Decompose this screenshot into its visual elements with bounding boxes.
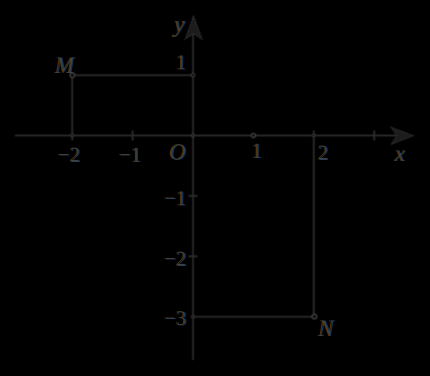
label 1 on y-axis xyxy=(175,50,187,74)
label x xyxy=(393,141,406,166)
point N marker xyxy=(312,314,317,319)
svg-text:−1: −1 xyxy=(120,143,142,167)
point x=1 marker xyxy=(251,133,255,137)
label y xyxy=(172,12,186,38)
svg-text:O: O xyxy=(170,140,187,165)
tick x=3 xyxy=(373,131,375,141)
svg-text:−2: −2 xyxy=(165,247,187,271)
svg-text:−3: −3 xyxy=(165,307,187,331)
svg-text:−2: −2 xyxy=(59,143,81,167)
label N xyxy=(317,316,336,341)
label 2 on x-axis xyxy=(317,140,329,164)
x-axis arrowhead xyxy=(391,127,414,144)
label M xyxy=(53,53,76,78)
point M marker xyxy=(70,73,75,78)
label O xyxy=(169,140,187,165)
x-axis xyxy=(15,135,396,137)
junction dot x=-2 xyxy=(71,134,74,137)
tick x=-1 xyxy=(132,131,134,141)
label -2 on y-axis xyxy=(164,246,188,270)
segment N to y-axis xyxy=(193,316,314,318)
label -3 on y-axis xyxy=(164,306,188,330)
label -1 on y-axis xyxy=(164,186,188,210)
label -1 on x-axis xyxy=(118,143,142,167)
tick y=-1 xyxy=(189,195,198,197)
segment x=2 down to N xyxy=(313,131,315,317)
segment M to y-axis xyxy=(72,74,193,76)
svg-text:M: M xyxy=(55,53,77,78)
tick y=-2 xyxy=(189,255,198,257)
svg-text:−1: −1 xyxy=(165,187,187,211)
y-axis arrowhead xyxy=(185,16,202,39)
svg-text:1: 1 xyxy=(177,51,188,75)
svg-text:2: 2 xyxy=(319,141,330,165)
label -2 on x-axis xyxy=(57,143,81,167)
junction dot x=2 xyxy=(312,134,315,137)
label 1 on x-axis xyxy=(251,139,263,163)
svg-text:N: N xyxy=(318,316,336,341)
svg-text:1: 1 xyxy=(252,139,263,163)
y-axis xyxy=(192,17,194,360)
point y=1 marker xyxy=(191,73,195,77)
segment M to x-axis xyxy=(71,75,73,140)
junction dot origin xyxy=(191,134,194,137)
svg-text:y: y xyxy=(173,12,186,38)
junction dot y=-3 xyxy=(192,315,195,318)
svg-text:x: x xyxy=(395,141,407,166)
